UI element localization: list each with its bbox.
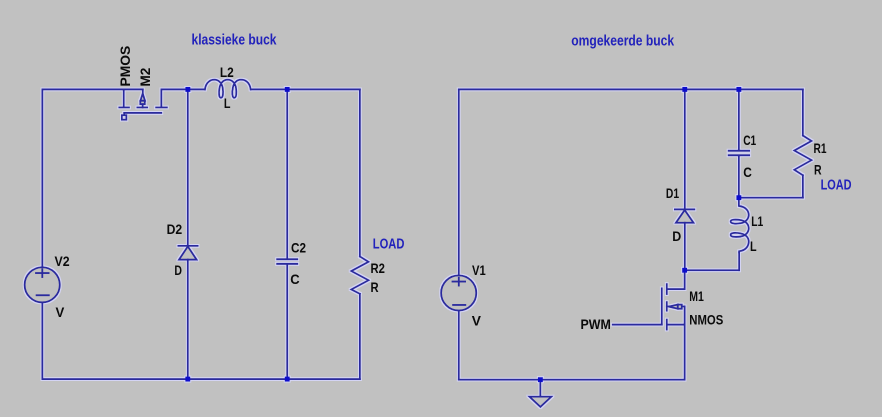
svg-text:M1: M1	[689, 288, 704, 304]
wire below R2	[359, 294, 361, 379]
svg-text:V: V	[56, 304, 65, 320]
svg-text:LOAD: LOAD	[373, 236, 405, 252]
diode D1	[675, 209, 695, 222]
node junction dots	[185, 87, 741, 382]
svg-text:C1: C1	[743, 132, 756, 148]
svg-text:M2: M2	[137, 67, 153, 86]
svg-text:L2: L2	[220, 64, 234, 80]
node L2 / C2 / output left	[285, 87, 290, 92]
voltage source V2	[25, 267, 60, 302]
transistor M2 (PMOS)	[119, 89, 167, 119]
node ground junction	[538, 377, 543, 382]
node top D1	[682, 87, 687, 92]
wire right vertical upper (to R2)	[359, 89, 361, 256]
node drain D1 / L1 / M1	[682, 268, 687, 273]
wire D2 branch upper	[187, 89, 189, 245]
wire M1 source to bottom	[684, 325, 686, 380]
svg-text:PWM: PWM	[581, 316, 611, 332]
svg-text:L1: L1	[751, 213, 763, 229]
svg-text:LOAD: LOAD	[821, 178, 852, 194]
wire D2 branch lower	[187, 260, 189, 379]
svg-text:V1: V1	[472, 262, 486, 278]
wire top horizontal right circuit	[459, 88, 803, 90]
wire bottom horizontal right circuit	[459, 379, 685, 381]
resistor R2	[351, 256, 368, 293]
node C1 / L1 / load	[736, 195, 741, 200]
svg-text:R: R	[371, 279, 379, 295]
node top C1	[736, 87, 741, 92]
wire C2 branch lower	[286, 264, 288, 379]
wire top-left horizontal	[42, 88, 123, 90]
svg-text:V2: V2	[55, 253, 70, 269]
node bottom D2 left	[185, 377, 190, 382]
inductor L1	[731, 198, 749, 253]
wire C1 branch upper	[738, 89, 740, 150]
wire bottom horizontal left circuit	[42, 378, 360, 380]
wire from L2 to right corner	[251, 88, 360, 90]
wire left vertical upper	[41, 89, 43, 267]
capacitor C2	[277, 259, 297, 264]
svg-text:D: D	[672, 228, 681, 244]
svg-text:klassieke buck: klassieke buck	[192, 32, 278, 49]
wire left vertical lower	[41, 302, 43, 379]
transistor M1 (NMOS)	[662, 270, 685, 329]
svg-text:C: C	[743, 164, 752, 180]
diode D2	[178, 246, 197, 260]
svg-text:NMOS: NMOS	[689, 311, 723, 327]
svg-text:L: L	[224, 95, 231, 111]
svg-text:L: L	[750, 238, 757, 254]
wire L1 bottom stub	[738, 252, 740, 270]
svg-text:C2: C2	[291, 239, 306, 255]
inductor L2	[205, 80, 251, 98]
wire V1 branch lower	[458, 311, 460, 380]
wire load bottom horizontal	[739, 197, 803, 199]
wire C1 branch lower	[738, 155, 740, 197]
node bottom C2 left	[285, 377, 290, 382]
voltage source V1	[441, 275, 476, 310]
node M2 drain / L2 / D2	[185, 87, 190, 92]
svg-text:R: R	[814, 161, 822, 177]
wire V1 branch upper	[458, 89, 460, 275]
capacitor C1	[729, 151, 749, 156]
svg-text:R1: R1	[814, 140, 827, 156]
wire PWM to gate	[613, 324, 662, 326]
svg-text:PMOS: PMOS	[117, 46, 133, 87]
svg-text:R2: R2	[371, 260, 386, 276]
svg-text:D2: D2	[167, 221, 183, 237]
wire drain node horizontal	[685, 269, 740, 271]
wire C2 branch upper	[286, 89, 288, 259]
wire from M2 drain to node	[161, 88, 205, 90]
wire D1 branch lower	[684, 223, 686, 271]
svg-text:omgekeerde buck: omgekeerde buck	[571, 32, 674, 49]
svg-text:C: C	[290, 271, 299, 287]
svg-text:V: V	[472, 312, 482, 328]
resistor R1	[794, 136, 811, 176]
svg-text:D: D	[174, 262, 182, 278]
ground	[529, 380, 551, 407]
wire R1 branch upper	[802, 89, 804, 135]
svg-text:D1: D1	[666, 185, 679, 201]
wire below R1	[802, 175, 804, 197]
wire D1 branch upper	[684, 89, 686, 209]
